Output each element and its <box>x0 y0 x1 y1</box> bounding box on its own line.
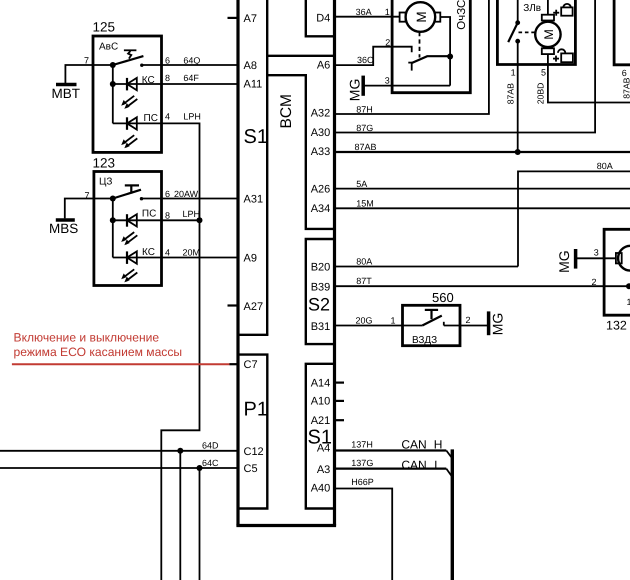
wire label 15M <box>356 199 374 209</box>
LED PC of 125 <box>113 117 162 130</box>
wire 20AW from switch 123 to A31 <box>142 198 239 200</box>
pin A32 label <box>311 107 331 119</box>
pin 8 label of 123 <box>165 210 170 220</box>
pin 3 label of 132 <box>594 247 599 257</box>
wire 137H from A4 <box>335 449 447 451</box>
svg-text:C12: C12 <box>244 446 264 458</box>
svg-text:A3: A3 <box>317 464 330 476</box>
connector P1 label <box>244 399 268 421</box>
svg-text:MBT: MBT <box>52 86 81 101</box>
pin 6 label of 123 <box>165 189 170 199</box>
wire label 137H <box>351 440 373 450</box>
svg-text:87G: 87G <box>356 123 373 133</box>
unit 123 name CZ <box>99 176 112 187</box>
svg-text:Включение и выключение: Включение и выключение <box>14 331 160 345</box>
svg-text:80A: 80A <box>597 161 613 171</box>
switch 560 actuator button <box>425 310 438 319</box>
wire pin 3 of OchZS <box>363 85 450 87</box>
switch ZLv feed wire <box>517 0 519 23</box>
wire 87G from A30 <box>335 0 596 133</box>
wire label 36C <box>357 55 374 65</box>
pin C12 label <box>244 446 264 458</box>
unit name OchZS vertical <box>456 0 468 30</box>
pin A8 label <box>244 60 257 72</box>
pin A7 label <box>244 13 257 25</box>
svg-text:3: 3 <box>385 76 390 86</box>
component number 125 <box>93 20 116 35</box>
pin A31 label <box>244 194 264 206</box>
switch ZLv upper contact <box>515 20 520 25</box>
motor M2 letter <box>542 29 556 39</box>
pin A4 label <box>317 442 330 454</box>
svg-text:20AW: 20AW <box>174 189 199 199</box>
switch 123 fixed contact <box>140 197 143 200</box>
pin A26 label <box>311 184 331 196</box>
switch 123 actuator key <box>125 185 139 193</box>
wire 36A from D4 <box>335 16 400 18</box>
svg-text:64Q: 64Q <box>183 55 200 65</box>
switch 123 junction node <box>110 196 116 202</box>
ground MG at 132 label <box>556 250 572 273</box>
ground MBS label <box>49 221 78 236</box>
svg-text:1: 1 <box>511 67 516 77</box>
svg-text:B39: B39 <box>311 282 331 294</box>
pin 1 label of 132 <box>627 297 630 307</box>
ground MBS wire <box>65 199 94 219</box>
svg-text:2: 2 <box>466 315 471 325</box>
svg-text:A14: A14 <box>311 378 331 390</box>
BCM section A6 compartment bottom <box>267 55 334 57</box>
connector S2 label <box>308 295 330 315</box>
lock closed icon <box>561 4 572 16</box>
svg-text:137G: 137G <box>351 458 373 468</box>
svg-text:87H: 87H <box>356 104 373 114</box>
svg-text:3: 3 <box>594 247 599 257</box>
third lock unit box at right edge <box>614 0 630 65</box>
svg-text:87AB: 87AB <box>505 83 515 104</box>
lock open icon <box>558 49 573 62</box>
switch 123 common wire <box>94 198 113 200</box>
CAN H drop link <box>446 451 452 459</box>
ground MG at OchZS bar <box>361 76 365 96</box>
central lock switch unit 123 box <box>94 172 162 286</box>
node LPH junction <box>197 217 203 223</box>
annotation ECO pointer line <box>12 363 230 365</box>
plus sign at closed lock <box>553 10 559 16</box>
wire label LPH top <box>183 111 201 121</box>
svg-text:L: L <box>434 458 441 472</box>
svg-text:CAN: CAN <box>401 437 426 451</box>
svg-text:BCM: BCM <box>278 94 295 128</box>
BCM section S2 box <box>306 239 335 344</box>
BCM inner box with A32 pin column <box>267 75 334 229</box>
wire pin 3 of 132 <box>576 257 616 259</box>
svg-text:M: M <box>414 11 429 22</box>
wire 64Q from switch 125 to A8 <box>142 64 238 66</box>
unit 125 name AvC <box>99 42 118 53</box>
pin D4 label <box>316 12 330 24</box>
pin A34 label <box>311 203 331 215</box>
LED KC of 125 <box>113 78 238 91</box>
svg-text:20G: 20G <box>356 316 373 326</box>
svg-text:S2: S2 <box>308 295 330 315</box>
LED KC arrows 123 <box>121 269 137 282</box>
ground MBT label <box>52 86 81 101</box>
LED PC name 123 <box>142 209 156 220</box>
svg-text:125: 125 <box>93 20 116 35</box>
motor M2 top feed wire <box>547 0 549 15</box>
svg-text:M: M <box>542 29 556 39</box>
svg-text:MG: MG <box>556 250 572 273</box>
svg-text:C5: C5 <box>244 463 258 475</box>
switch 125 actuator button <box>124 50 136 58</box>
ground MG at 132 bar <box>574 249 578 269</box>
svg-text:6: 6 <box>622 68 627 78</box>
svg-text:123: 123 <box>93 155 116 170</box>
wire H66P from A40 <box>335 489 393 580</box>
BCM section D4 compartment <box>306 0 335 36</box>
BCM section S1 bottom box <box>306 364 335 509</box>
pin A14 stub <box>335 382 345 384</box>
svg-text:A9: A9 <box>244 253 257 265</box>
ground MBT bar <box>56 83 77 87</box>
svg-text:КС: КС <box>142 75 155 86</box>
wire 87AB from A33 <box>335 151 630 153</box>
pin A21 stub <box>335 419 345 421</box>
svg-text:A30: A30 <box>311 127 331 139</box>
svg-text:B20: B20 <box>311 262 331 274</box>
svg-text:КС: КС <box>142 247 155 258</box>
svg-text:A4: A4 <box>317 442 330 454</box>
pin B20 label <box>311 262 331 274</box>
annotation ECO text line 1 <box>14 331 160 345</box>
rear washer unit OchZS box <box>392 0 470 93</box>
internal link wire in 125 <box>112 65 114 123</box>
wire 5A from A26 <box>335 188 630 190</box>
svg-text:A31: A31 <box>244 194 264 206</box>
pin 2 label of 560 <box>466 315 471 325</box>
pin 2 label of 132 <box>592 277 597 287</box>
svg-text:64C: 64C <box>202 458 219 468</box>
wire 80A upper run <box>518 171 630 266</box>
svg-text:ПС: ПС <box>142 209 156 220</box>
plus sign at open lock <box>553 56 559 62</box>
component number 123 <box>93 155 116 170</box>
svg-text:MG: MG <box>347 79 363 102</box>
svg-text:7: 7 <box>85 190 90 200</box>
ground MG at 560 label <box>490 313 506 336</box>
pin A14 label <box>311 378 331 390</box>
svg-text:87T: 87T <box>356 276 372 286</box>
svg-text:20BD: 20BD <box>536 83 546 105</box>
wire 64D from C12 <box>0 450 237 452</box>
wire label 80A upper <box>597 161 613 171</box>
svg-text:LPH: LPH <box>183 209 201 219</box>
wire label 64C <box>202 458 219 468</box>
svg-text:MG: MG <box>490 313 506 336</box>
wire LPH vertical run <box>161 123 199 580</box>
node 87AB junction <box>515 149 521 155</box>
svg-text:5: 5 <box>541 67 546 77</box>
svg-text:S1: S1 <box>244 126 268 148</box>
node 87T at 132 <box>626 283 630 289</box>
mechanical link dashed ZLv <box>519 31 536 33</box>
svg-text:1: 1 <box>385 7 390 17</box>
svg-text:8: 8 <box>165 210 170 220</box>
svg-text:A11: A11 <box>244 79 263 91</box>
hazard switch unit 125 box <box>93 36 162 152</box>
svg-text:A8: A8 <box>244 60 257 72</box>
wire 64D branch down <box>179 451 181 580</box>
svg-text:CAN: CAN <box>401 458 426 472</box>
svg-text:A34: A34 <box>311 203 331 215</box>
label CAN L <box>401 458 441 472</box>
connector S1 box right edge <box>266 0 268 335</box>
svg-text:2: 2 <box>385 37 390 47</box>
svg-text:ЗЛв: ЗЛв <box>523 3 541 14</box>
wire label 20AW <box>174 189 199 199</box>
wire label 87AB vertical <box>505 83 515 104</box>
LED KC name 123 <box>142 247 155 258</box>
pin A11 label <box>244 79 263 91</box>
switch of OchZS blade <box>411 56 450 63</box>
motor M3 of 132 <box>616 246 630 271</box>
wire label LPH bottom <box>183 209 201 219</box>
svg-text:64F: 64F <box>183 73 199 83</box>
wire 87T from B39 <box>335 285 630 287</box>
wire label 64D <box>202 440 219 450</box>
pin A7 stub <box>228 17 238 19</box>
switch ZLv lower contact <box>515 39 520 44</box>
svg-text:A32: A32 <box>311 107 331 119</box>
wire label 137G <box>351 458 373 468</box>
svg-text:4: 4 <box>165 111 170 121</box>
pin A10 stub <box>335 400 345 402</box>
pin 3 label of OchZS <box>385 76 390 86</box>
svg-text:A33: A33 <box>311 146 331 158</box>
pin A40 label <box>311 482 331 494</box>
LED KC of 123 <box>113 251 238 264</box>
wire from M1 to switch junction <box>440 17 450 86</box>
wire label 87T <box>356 276 372 286</box>
svg-text:ЦЗ: ЦЗ <box>99 176 112 187</box>
wire 36C from A6 <box>335 47 412 65</box>
svg-text:H66P: H66P <box>351 477 374 487</box>
motor M1 of OchZS <box>400 2 441 32</box>
wire label 87AB <box>355 142 377 152</box>
connector S1 bottom label <box>308 426 332 448</box>
wire label 87AB at pin 6 <box>621 77 630 98</box>
wire label 87H <box>356 104 373 114</box>
wire 20G from B31 <box>335 325 403 327</box>
svg-text:ПС: ПС <box>144 113 158 124</box>
wire label 5A <box>356 179 367 189</box>
node on 64C wire <box>197 465 203 471</box>
pin C5 label <box>244 463 258 475</box>
pin A6 label <box>317 60 330 72</box>
wire 20BD from ZLv pin 5 <box>548 54 630 102</box>
connector S1 label <box>244 126 268 148</box>
pin 8 label of 125 <box>165 73 170 83</box>
pin A33 label <box>311 146 331 158</box>
switch 125 blade <box>113 56 144 65</box>
wire 87H from A32 <box>335 0 489 114</box>
pin A9 label <box>244 253 257 265</box>
wire label 80A <box>356 257 372 267</box>
svg-text:36C: 36C <box>357 55 374 65</box>
BCM block bottom edge <box>236 524 336 527</box>
CAN bus line <box>451 449 454 580</box>
wire 137G from A3 <box>335 468 447 470</box>
wire label 64F <box>183 73 199 83</box>
svg-text:137H: 137H <box>351 440 373 450</box>
pin A10 label <box>311 396 331 408</box>
svg-text:A7: A7 <box>244 13 257 25</box>
BCM label <box>278 94 295 128</box>
svg-text:8: 8 <box>165 73 170 83</box>
wire label 20M <box>183 248 201 258</box>
LED PC of 123 <box>113 214 200 227</box>
mechanical link dashed M1 <box>419 32 421 58</box>
svg-text:15M: 15M <box>356 199 374 209</box>
svg-text:режима ЕСО касанием массы: режима ЕСО касанием массы <box>14 345 183 359</box>
svg-text:MBS: MBS <box>49 221 78 236</box>
pin 6 label of third unit <box>622 68 627 78</box>
wire label 20BD vertical <box>536 83 546 105</box>
pin A21 label <box>311 415 331 427</box>
svg-text:АвС: АвС <box>99 42 118 53</box>
svg-text:A10: A10 <box>311 396 331 408</box>
svg-text:D4: D4 <box>316 12 330 24</box>
connector S1 box bottom edge <box>237 334 269 336</box>
pin B39 label <box>311 282 331 294</box>
pin 4 label of 125 <box>165 111 170 121</box>
pin 6 label of 125 <box>165 55 170 65</box>
svg-text:A27: A27 <box>244 301 264 313</box>
lock unit 132 box <box>604 229 630 315</box>
pin C7 label <box>244 359 258 371</box>
svg-text:80A: 80A <box>356 257 372 267</box>
wire label 87G <box>356 123 373 133</box>
ground MG at OchZS label <box>347 79 363 102</box>
pin 4 label of 123 <box>165 248 170 258</box>
svg-text:C7: C7 <box>244 359 258 371</box>
annotation ECO text line 2 <box>14 345 183 359</box>
svg-text:ОчЗС: ОчЗС <box>456 0 468 30</box>
svg-text:132: 132 <box>606 319 627 333</box>
pin 1 label of ZLv <box>511 67 516 77</box>
pin B31 label <box>311 321 331 333</box>
svg-text:87AB: 87AB <box>621 77 630 98</box>
LED PC name <box>144 113 158 124</box>
pin A3 label <box>317 464 330 476</box>
svg-text:20M: 20M <box>183 248 201 258</box>
LED KC name <box>142 75 155 86</box>
wire 64C branch down <box>199 468 201 580</box>
pin A27 stub <box>228 304 238 306</box>
wire label H66P <box>351 477 374 487</box>
LED PC junction node 123 <box>110 217 116 223</box>
pin 7 label of 125 <box>84 55 89 65</box>
LED KC junction node <box>110 81 116 87</box>
switch 560 name VZDZ <box>412 335 437 346</box>
label CAN H <box>401 437 442 451</box>
tailgate switch 560 box <box>403 305 461 345</box>
pin 5 label of ZLv <box>541 67 546 77</box>
LED KC arrows <box>121 96 137 109</box>
pin A30 label <box>311 127 331 139</box>
unit name ZLv <box>523 3 541 14</box>
svg-text:1: 1 <box>627 297 630 307</box>
pin A27 label <box>244 301 264 313</box>
svg-text:B31: B31 <box>311 321 331 333</box>
switch of OchZS lower contact <box>408 63 413 71</box>
pin 1 label of OchZS <box>385 7 390 17</box>
ground MG at 560 bar <box>487 311 491 335</box>
wire label 36A <box>356 7 372 17</box>
motor M1 letter <box>414 11 429 22</box>
BCM connector block left edge <box>236 0 239 526</box>
LED PC arrows 123 <box>121 232 137 245</box>
wire label 20G <box>356 316 373 326</box>
wire label 64Q <box>183 55 200 65</box>
node in OchZS <box>447 54 453 60</box>
svg-text:1: 1 <box>391 316 396 326</box>
svg-text:7: 7 <box>84 55 89 65</box>
pin 2 label of OchZS <box>385 37 390 47</box>
switch ZLv blade <box>508 23 518 42</box>
wire 87AB from ZLv pin 1 <box>517 41 519 152</box>
component number 560 <box>432 290 454 305</box>
wire from 560 pin 2 to ground <box>460 325 487 327</box>
ground MBS bar <box>56 218 75 222</box>
svg-text:36A: 36A <box>356 7 372 17</box>
BCM block right edge <box>333 0 336 526</box>
svg-text:A26: A26 <box>311 184 331 196</box>
ground MBT wire <box>65 65 93 83</box>
connector P1 box outline <box>237 355 267 509</box>
svg-text:5A: 5A <box>356 179 367 189</box>
wire 64C from C5 <box>0 467 237 469</box>
CAN L drop link <box>446 469 452 477</box>
wire 15M from A34 <box>335 207 630 209</box>
pin 1 label of 560 <box>391 316 396 326</box>
svg-text:H: H <box>434 437 443 451</box>
motor M2 of ZLv <box>535 15 560 54</box>
switch 125 junction node <box>110 62 116 68</box>
svg-text:87AB: 87AB <box>355 142 377 152</box>
node on 64D wire <box>177 448 183 454</box>
svg-text:560: 560 <box>432 290 454 305</box>
svg-text:A21: A21 <box>311 415 331 427</box>
svg-text:2: 2 <box>592 277 597 287</box>
svg-text:LPH: LPH <box>183 111 201 121</box>
pin 7 label of 123 <box>85 190 90 200</box>
svg-text:A40: A40 <box>311 482 331 494</box>
svg-text:6: 6 <box>165 55 170 65</box>
component number 132 <box>606 319 627 333</box>
svg-text:A6: A6 <box>317 60 330 72</box>
switch 123 blade <box>113 190 141 199</box>
svg-text:4: 4 <box>165 248 170 258</box>
switch 125 common wire <box>93 64 113 66</box>
door lock unit ZLv box <box>497 0 575 65</box>
svg-text:P1: P1 <box>244 399 268 421</box>
svg-text:ВЗДЗ: ВЗДЗ <box>412 335 437 346</box>
LED PC arrows <box>121 135 137 148</box>
wire 80A from B20 <box>335 266 519 268</box>
internal link wire in 123 <box>112 199 114 258</box>
